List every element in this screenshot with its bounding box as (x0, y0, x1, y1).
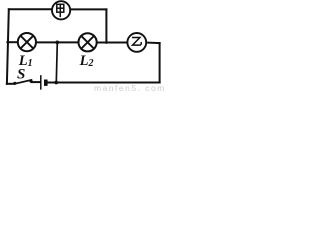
wire right vertical (159, 43, 161, 82)
wire switch to battery (32, 81, 41, 83)
wire bottom rail battery to right vertical (48, 82, 160, 84)
node junction between L1 and L2 (55, 41, 59, 45)
lamp L2 (79, 33, 97, 51)
wire middle rail: 乙 to right vertical (147, 42, 160, 45)
ammeter 乙 (meter B) (127, 33, 146, 52)
svg-text:L2: L2 (79, 53, 94, 69)
node junction at right drop (105, 41, 108, 44)
wire middle rail: L1 to L2 (37, 41, 78, 43)
watermark (94, 83, 166, 93)
wire top rail left segment (9, 8, 52, 10)
svg-text:S: S (17, 66, 25, 82)
node junction bottom rail (54, 81, 58, 85)
lamp L1 (18, 33, 36, 51)
wire bottom rail left to switch (7, 83, 14, 85)
switch S (13, 80, 32, 85)
wire middle rail: L2 to meter 乙 (97, 42, 126, 44)
wire mid vertical (middle rail to bottom rail) (56, 43, 57, 83)
wire right drop from top rail (105, 9, 107, 42)
battery cell (41, 76, 48, 89)
wire top rail right segment (71, 8, 107, 10)
wire left vertical (7, 9, 9, 84)
ammeter 甲 (meter A) (52, 1, 70, 19)
wire middle rail: left vertical to L1 (7, 41, 17, 43)
